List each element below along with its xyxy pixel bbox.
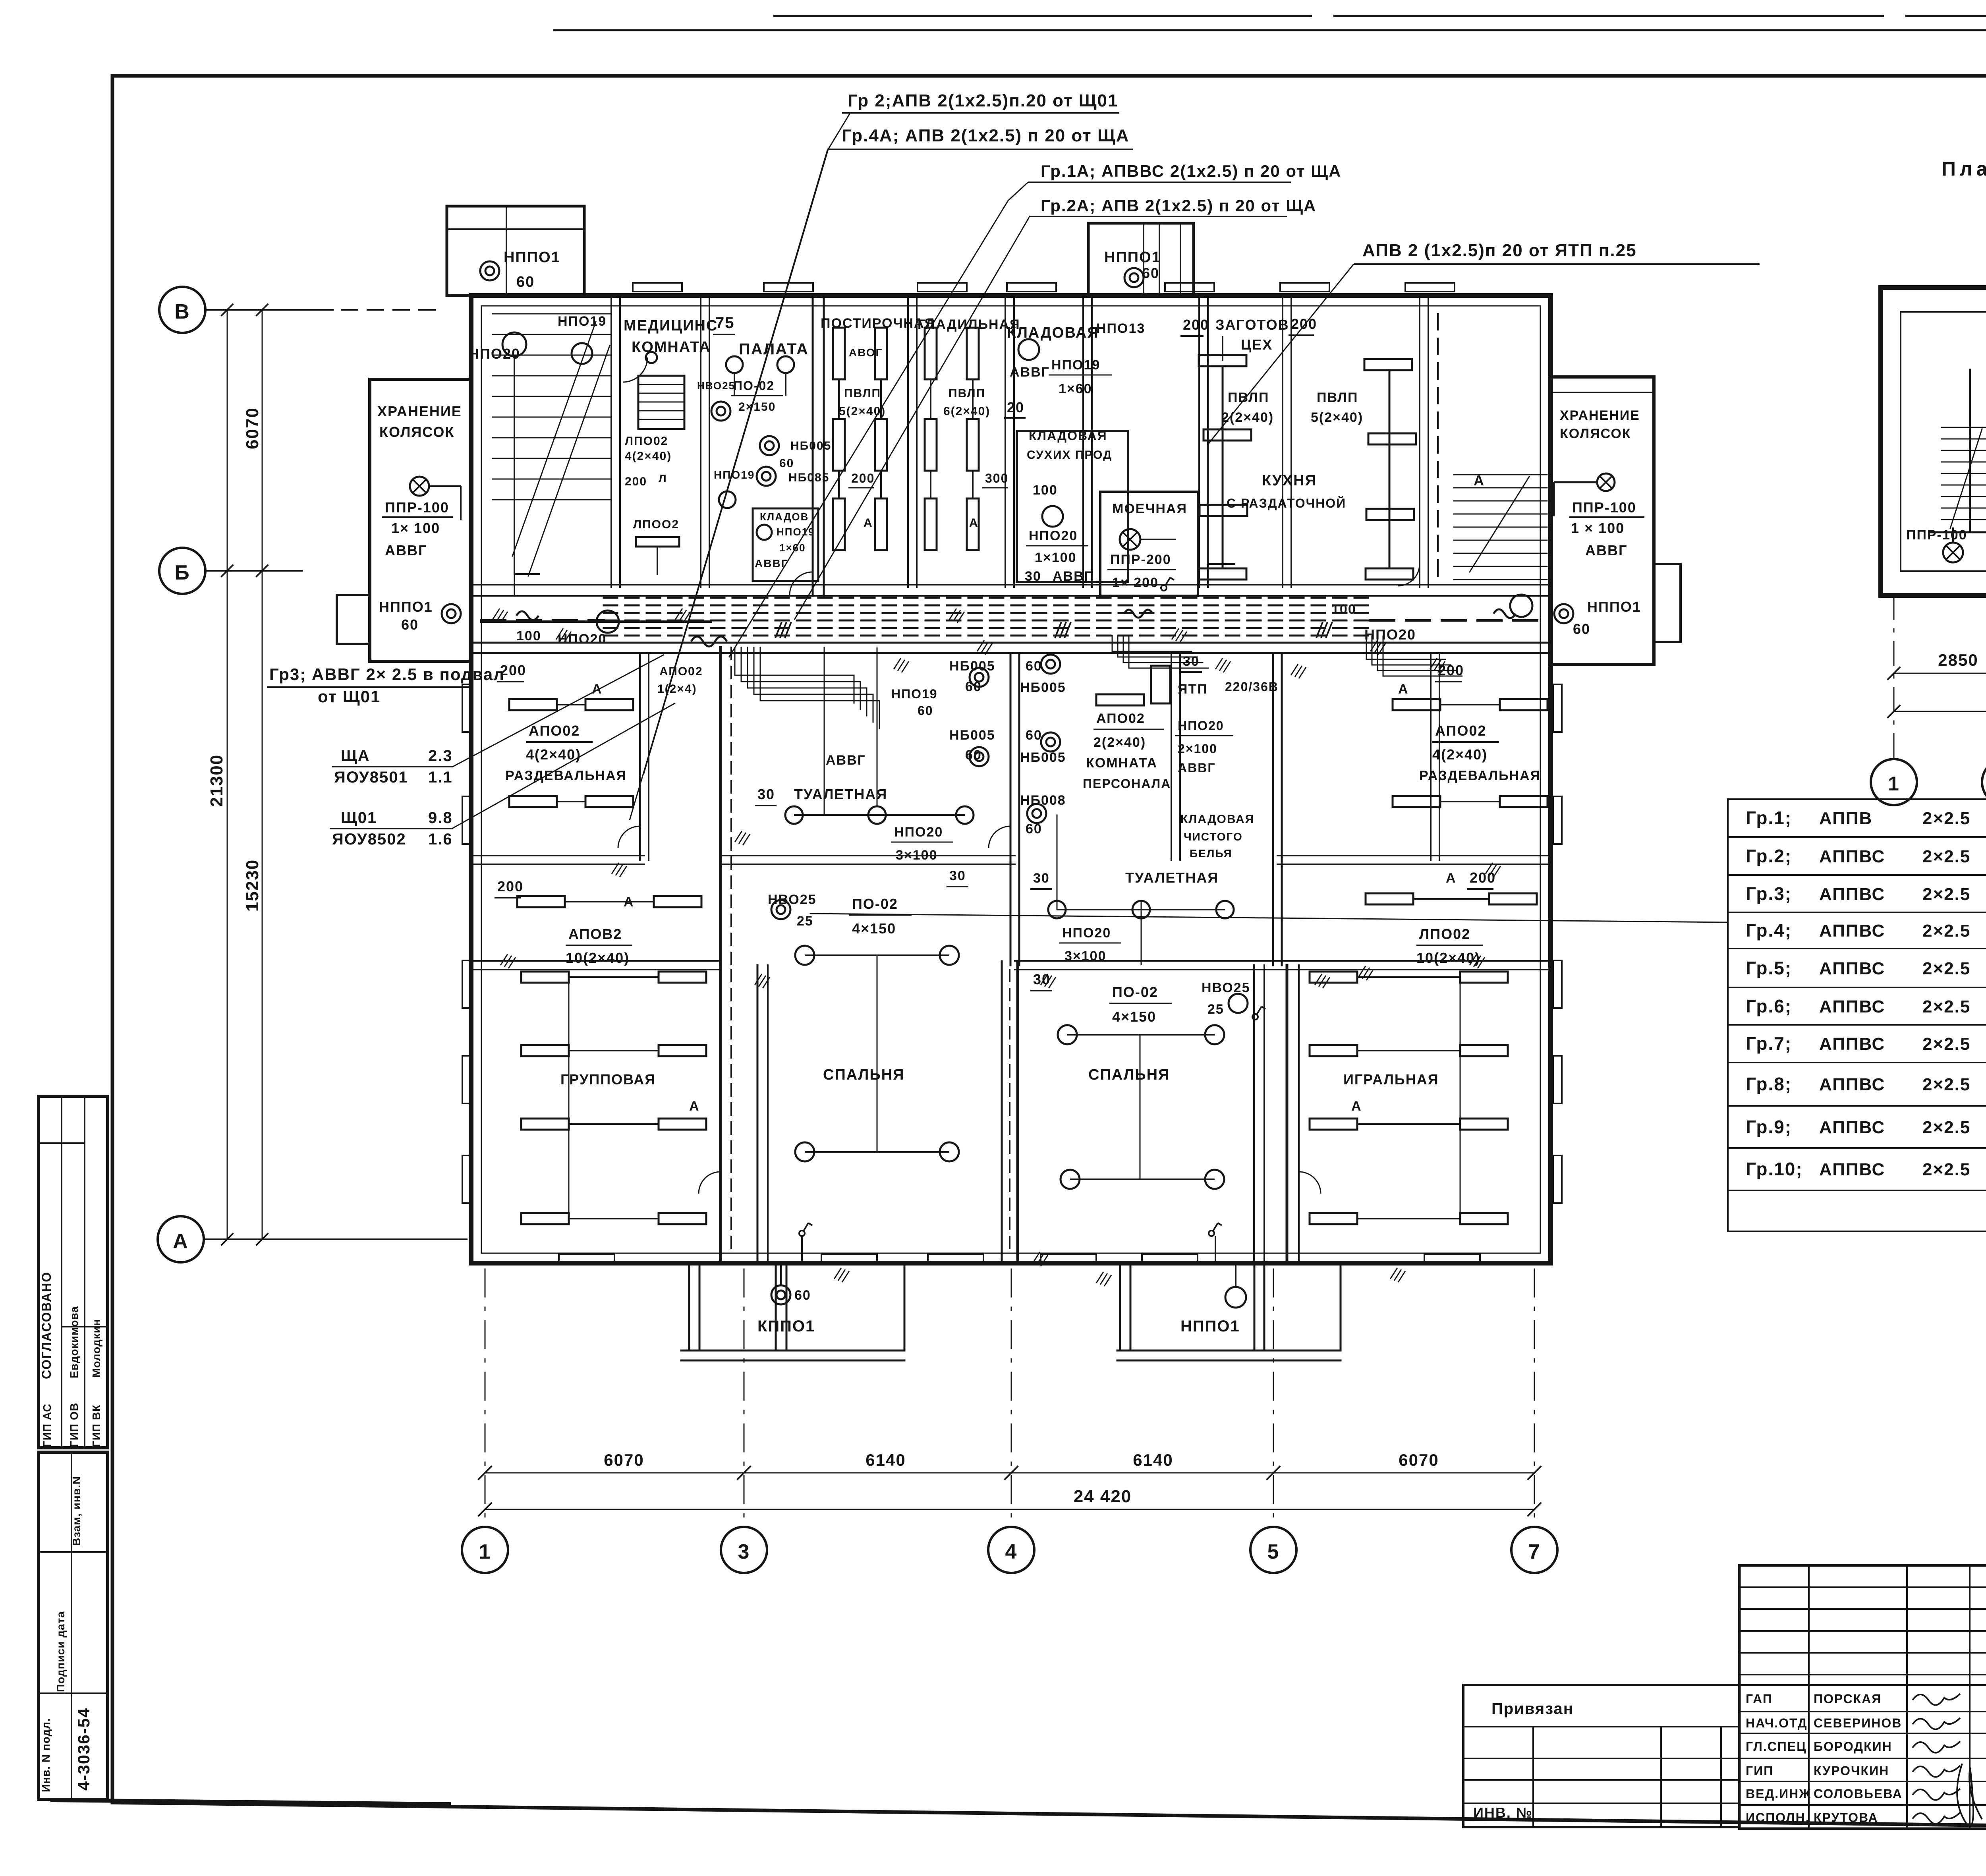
svg-text:ХРАНЕНИЕ: ХРАНЕНИЕ — [377, 403, 462, 419]
svg-text:Б: Б — [174, 561, 190, 584]
fluorescent fixture — [1310, 972, 1357, 983]
svg-text:ТУАЛЕТНАЯ: ТУАЛЕТНАЯ — [1125, 869, 1219, 886]
fluorescent fixture — [585, 699, 633, 710]
svg-text:ГЛ.СПЕЦ: ГЛ.СПЕЦ — [1746, 1739, 1807, 1754]
leader ЩА — [453, 655, 664, 767]
door arc медкомната — [623, 357, 647, 382]
fluorescent fixture — [1460, 1045, 1508, 1056]
inner face top — [481, 305, 1540, 307]
grid row А — [158, 1216, 204, 1262]
stairwell top-left treads — [493, 313, 611, 315]
svg-text:ГИП ОВ: ГИП ОВ — [68, 1403, 80, 1447]
right razdevalnaya wall (double) — [1430, 653, 1432, 860]
door arc палата — [790, 572, 813, 595]
svg-text:ЯОУ8501: ЯОУ8501 — [334, 769, 408, 786]
kitchen partition (double) — [1419, 296, 1420, 587]
switch — [799, 1223, 812, 1236]
pram storage room left (ХРАНЕНИЕ КОЛЯСОК) — [370, 379, 471, 661]
wall y=2165 left part — [471, 855, 644, 856]
svg-text:НПО20: НПО20 — [469, 346, 520, 362]
svg-text:200: 200 — [497, 878, 524, 895]
lamp — [868, 806, 886, 824]
hatch — [1390, 1268, 1405, 1282]
svg-text:НБ085: НБ085 — [788, 471, 829, 484]
fluorescent fixture — [585, 796, 633, 807]
svg-text:НВО25: НВО25 — [1202, 980, 1250, 995]
leader Gr2 — [643, 113, 850, 775]
fluorescent fixture — [1200, 505, 1247, 516]
leader YaTP — [1207, 264, 1354, 445]
svg-text:ЯТП: ЯТП — [1178, 682, 1208, 697]
lamp НПО20 right — [1510, 595, 1532, 617]
hatch — [1041, 974, 1056, 988]
svg-text:ЛПО02: ЛПО02 — [625, 435, 668, 448]
outer wall right — [1548, 296, 1553, 1263]
lamp — [785, 806, 803, 824]
wire bundle — [760, 647, 879, 728]
wire group room — [568, 977, 570, 1219]
lamp — [795, 1142, 814, 1161]
svg-text:НБ005: НБ005 — [1020, 680, 1066, 695]
switch — [1209, 1223, 1222, 1236]
svg-text:6(2×40): 6(2×40) — [943, 405, 990, 418]
signature scrawl — [1913, 1694, 1960, 1705]
wire drops toilets — [877, 647, 878, 806]
wire — [569, 1218, 659, 1219]
fluorescent fixture — [1460, 1119, 1508, 1130]
window sills top wall — [633, 283, 682, 292]
svg-text:АПОВ2: АПОВ2 — [568, 926, 622, 942]
svg-text:А: А — [173, 1230, 189, 1253]
svg-text:Подписи дата: Подписи дата — [54, 1611, 67, 1692]
svg-text:200: 200 — [851, 471, 875, 485]
svg-text:НБ005: НБ005 — [790, 439, 831, 452]
fluorescent fixture — [1368, 433, 1416, 444]
wire zagotov drop — [1222, 336, 1223, 361]
wire play room — [1460, 977, 1461, 1219]
svg-text:1: 1 — [479, 1540, 491, 1563]
svg-text:1×60: 1×60 — [779, 542, 806, 554]
fluorescent fixture — [636, 537, 679, 547]
lamp ППР-200 — [1120, 529, 1140, 550]
lamp — [1216, 901, 1234, 918]
svg-text:НПО20: НПО20 — [1062, 925, 1111, 941]
lamp — [1205, 1025, 1224, 1044]
lamp НПО20 corridor — [597, 611, 619, 633]
toilet2 bottom wall (double) — [1015, 960, 1277, 962]
signature scrawl — [1913, 1766, 1960, 1777]
lamp — [719, 491, 736, 508]
wire bundle — [1123, 636, 1203, 663]
svg-text:Гр.7;: Гр.7; — [1746, 1033, 1792, 1054]
svg-text:4(2×40): 4(2×40) — [625, 450, 672, 463]
fluorescent fixture — [659, 1119, 706, 1130]
svg-text:200: 200 — [500, 662, 526, 678]
riser marks corridor — [775, 622, 791, 638]
svg-text:БОРОДКИН: БОРОДКИН — [1814, 1739, 1892, 1754]
svg-text:60: 60 — [1142, 265, 1159, 281]
wire bundle — [1118, 636, 1197, 657]
lamp — [1058, 1025, 1077, 1044]
wire bundle — [748, 647, 867, 716]
svg-text:100: 100 — [1033, 483, 1058, 498]
svg-text:А: А — [689, 1099, 700, 1114]
lamp НПО20 — [502, 332, 526, 356]
fluorescent fixture — [1204, 429, 1251, 441]
signature scrawl — [1913, 1789, 1960, 1800]
fluorescent fixture — [1310, 1119, 1357, 1130]
play room left wall — [1286, 965, 1289, 1263]
svg-text:1 × 100: 1 × 100 — [1571, 520, 1625, 536]
svg-text:КЛАДОВ: КЛАДОВ — [760, 511, 809, 523]
lamp — [711, 402, 730, 421]
wire across to table — [810, 914, 1728, 922]
svg-text:7: 7 — [1528, 1540, 1541, 1563]
svg-text:2×2.5: 2×2.5 — [1922, 921, 1971, 941]
svg-text:Гр.4А; АПВ 2(1х2.5) п 20 от ЩА: Гр.4А; АПВ 2(1х2.5) п 20 от ЩА — [842, 126, 1130, 145]
svg-text:30: 30 — [1183, 654, 1200, 669]
svg-text:НППО1: НППО1 — [379, 599, 433, 615]
svg-text:АПО02: АПО02 — [1096, 711, 1145, 726]
svg-text:НБ005: НБ005 — [1020, 750, 1066, 765]
svg-text:ГЛАДИЛЬНАЯ: ГЛАДИЛЬНАЯ — [918, 317, 1020, 332]
leader Щ01 — [452, 703, 675, 829]
personnel room wall (double) — [1171, 653, 1172, 860]
hatch — [1430, 658, 1445, 672]
fluorescent fixture — [1366, 509, 1414, 520]
svg-text:НАЧ.ОТД: НАЧ.ОТД — [1746, 1716, 1808, 1730]
row line В — [205, 309, 333, 311]
window sills left wall — [462, 684, 471, 732]
lamp НБ005 — [970, 747, 989, 766]
lamp НБ008 — [1027, 804, 1046, 823]
store room dry products — [1017, 431, 1128, 582]
fluorescent fixture — [659, 972, 706, 983]
lamp — [795, 946, 814, 965]
svg-text:2×2.5: 2×2.5 — [1922, 959, 1971, 978]
svg-text:60: 60 — [1573, 621, 1590, 637]
svg-text:СОГЛАСОВАНО: СОГЛАСОВАНО — [39, 1271, 54, 1379]
svg-text:2×2.5: 2×2.5 — [1922, 1075, 1971, 1094]
svg-text:6070: 6070 — [243, 407, 262, 449]
lamp — [1205, 1170, 1224, 1189]
svg-text:200: 200 — [1291, 316, 1317, 332]
svg-text:Гр.5;: Гр.5; — [1746, 958, 1792, 978]
hatch — [1172, 628, 1187, 643]
svg-text:Гр.2А; АПВ 2(1х2.5) п 20 от ЩА: Гр.2А; АПВ 2(1х2.5) п 20 от ЩА — [1041, 196, 1316, 215]
svg-text:Гр.4;: Гр.4; — [1746, 920, 1792, 941]
hatch — [834, 1268, 849, 1282]
svg-text:2×2.5: 2×2.5 — [1922, 1118, 1971, 1137]
inner face right — [1540, 306, 1541, 1253]
fluorescent fixture — [833, 419, 845, 471]
svg-text:4-3036-54: 4-3036-54 — [74, 1708, 93, 1791]
wire — [794, 814, 965, 816]
svg-text:АВВГ: АВВГ — [826, 753, 866, 768]
svg-text:НПО19: НПО19 — [558, 314, 607, 329]
svg-text:ГРУППОВАЯ: ГРУППОВАЯ — [560, 1071, 656, 1088]
hatch — [612, 863, 627, 877]
corridor wiring bundle — [604, 597, 1370, 599]
svg-text:30: 30 — [949, 868, 966, 883]
svg-text:АВВГ: АВВГ — [1010, 365, 1050, 380]
svg-text:ЩА: ЩА — [341, 747, 370, 765]
fluorescent fixture — [521, 1119, 569, 1130]
wire — [838, 379, 840, 419]
svg-text:АППВС: АППВС — [1819, 1118, 1885, 1137]
svg-text:СЕВЕРИНОВ: СЕВЕРИНОВ — [1814, 1716, 1902, 1730]
hatch — [1291, 664, 1306, 678]
wire bundle — [741, 647, 860, 709]
svg-text:60: 60 — [965, 748, 982, 763]
svg-text:30: 30 — [1033, 971, 1051, 987]
wire — [1057, 909, 1225, 910]
wire — [1389, 370, 1391, 568]
svg-text:ПОРСКАЯ: ПОРСКАЯ — [1814, 1692, 1882, 1706]
door arc групповая — [699, 1172, 721, 1194]
svg-text:10(2×40): 10(2×40) — [566, 950, 630, 966]
svg-text:АВВГ: АВВГ — [755, 557, 788, 570]
fluorescent fixture — [875, 419, 887, 471]
lamp — [1042, 506, 1063, 527]
fluorescent fixture — [509, 796, 557, 807]
svg-text:А: А — [1446, 871, 1457, 886]
svg-text:Гр.2;: Гр.2; — [1746, 846, 1792, 866]
svg-text:ИНВ. №: ИНВ. № — [1473, 1805, 1533, 1821]
svg-text:ГИП: ГИП — [1746, 1764, 1773, 1778]
grid axis 2 basement — [1982, 759, 1986, 805]
svg-text:1×100: 1×100 — [1035, 550, 1077, 565]
svg-text:2.3: 2.3 — [428, 747, 453, 765]
svg-text:2×100: 2×100 — [1178, 742, 1217, 756]
lamp ППР-100 left — [410, 477, 429, 496]
svg-text:4: 4 — [1005, 1540, 1018, 1563]
svg-text:ЗАГОТОВ: ЗАГОТОВ — [1215, 317, 1289, 333]
svg-text:3×100: 3×100 — [1064, 949, 1107, 964]
svg-text:АППВС: АППВС — [1819, 921, 1885, 941]
left stamp block upper — [39, 1096, 108, 1448]
wire bundle — [1112, 636, 1192, 651]
svg-text:75: 75 — [715, 314, 735, 332]
grid row В — [159, 287, 205, 333]
svg-text:60: 60 — [1026, 728, 1042, 743]
grid axis 5 — [1250, 1527, 1296, 1573]
svg-text:Гр.6;: Гр.6; — [1746, 996, 1792, 1016]
outer wall bottom — [471, 1261, 1551, 1265]
svg-text:2×2.5: 2×2.5 — [1922, 1034, 1971, 1054]
svg-text:РАЗДЕВАЛЬНАЯ: РАЗДЕВАЛЬНАЯ — [1419, 768, 1541, 783]
signatures scrawl — [1913, 1694, 1982, 1826]
fluorescent fixture — [654, 896, 701, 907]
svg-text:2×2.5: 2×2.5 — [1922, 847, 1971, 866]
door arc туалетная — [989, 826, 1010, 848]
svg-text:КОМНАТА: КОМНАТА — [1086, 755, 1157, 771]
svg-text:АППВ: АППВ — [1819, 809, 1872, 828]
svg-text:ГИП АС: ГИП АС — [41, 1403, 53, 1447]
stair arrow — [512, 322, 596, 556]
svg-text:НПО20: НПО20 — [1178, 719, 1224, 733]
lamp НППО1 top-center — [1124, 268, 1144, 287]
lamp АВВГ — [1018, 339, 1039, 360]
wire drops to lamps — [514, 356, 515, 596]
door arc игральная — [1299, 1172, 1321, 1194]
wire — [805, 954, 949, 956]
wire — [1067, 1034, 1215, 1036]
svg-text:КЛАДОВАЯ: КЛАДОВАЯ — [1180, 813, 1254, 826]
svg-text:АППВС: АППВС — [1819, 1034, 1885, 1054]
lamp NPPO1 — [757, 467, 776, 486]
partition walls, top band (double line) — [610, 296, 612, 587]
svg-text:КУХНЯ: КУХНЯ — [1262, 472, 1317, 489]
svg-text:ПЕРСОНАЛА: ПЕРСОНАЛА — [1083, 777, 1171, 791]
washing room МОЕЧНАЯ — [1100, 492, 1198, 596]
svg-text:2×2.5: 2×2.5 — [1922, 997, 1971, 1016]
svg-text:ПАЛАТА: ПАЛАТА — [739, 340, 809, 358]
svg-text:НПО20: НПО20 — [1029, 528, 1078, 543]
svg-text:6070: 6070 — [604, 1451, 644, 1469]
svg-text:ТУАЛЕТНАЯ: ТУАЛЕТНАЯ — [794, 786, 887, 802]
svg-text:21300: 21300 — [207, 754, 226, 807]
wire — [1357, 976, 1460, 978]
svg-text:60: 60 — [779, 457, 794, 470]
svg-text:60: 60 — [1026, 659, 1042, 674]
svg-text:от Щ01: от Щ01 — [318, 687, 381, 706]
svg-text:Щ01: Щ01 — [341, 809, 377, 827]
svg-text:АПВ 2 (1х2.5)п 20 от ЯТП п.25: АПВ 2 (1х2.5)п 20 от ЯТП п.25 — [1362, 241, 1637, 260]
svg-text:1×60: 1×60 — [1059, 381, 1092, 396]
fluorescent fixture — [925, 328, 937, 379]
door arc кухня — [1398, 564, 1420, 586]
wire bundle — [1129, 636, 1208, 668]
bedroom separating wall — [1001, 961, 1003, 1263]
wire spalnya2 — [1140, 1035, 1141, 1179]
fluorescent fixture — [1460, 972, 1508, 983]
lamp ППР-100 right — [1597, 473, 1615, 491]
svg-text:220/36В: 220/36В — [1225, 680, 1279, 694]
wire — [1357, 1218, 1460, 1219]
leader Gr4A — [630, 150, 827, 820]
signature scrawl — [1913, 1718, 1960, 1729]
stair right treads — [1454, 474, 1547, 475]
row line Б — [205, 570, 302, 572]
wire spalnya1 — [877, 955, 878, 1152]
svg-text:2×2.5: 2×2.5 — [1922, 809, 1971, 828]
basement inner faces — [1900, 312, 1901, 571]
fluorescent fixture — [875, 498, 887, 550]
lamp ППР-100 — [1943, 543, 1963, 562]
fluorescent fixture — [659, 1213, 706, 1224]
window sills right wall — [1553, 684, 1562, 732]
svg-text:А: А — [864, 516, 873, 529]
svg-text:2850: 2850 — [1938, 651, 1978, 669]
lamp НППО1 left — [442, 604, 461, 623]
hatch — [675, 609, 690, 623]
fluorescent fixture — [1199, 568, 1246, 580]
svg-text:АППВС: АППВС — [1819, 1160, 1885, 1179]
fluorescent fixture — [925, 419, 937, 471]
svg-text:60: 60 — [965, 679, 982, 694]
svg-text:Л: Л — [659, 472, 667, 485]
hatch — [1033, 1252, 1048, 1266]
fluorescent fixture — [1096, 694, 1144, 705]
svg-text:Гр 2;АПВ 2(1х2.5)п.20 от Щ01: Гр 2;АПВ 2(1х2.5)п.20 от Щ01 — [848, 91, 1119, 110]
fluorescent fixture — [1364, 359, 1412, 370]
porch bottom-left — [688, 1265, 690, 1350]
svg-text:200: 200 — [625, 475, 647, 488]
inner face bottom — [481, 1253, 1540, 1254]
fluorescent fixture — [1310, 1213, 1357, 1224]
svg-text:ПВЛП: ПВЛП — [1228, 390, 1269, 405]
inner face left — [481, 306, 482, 1253]
lamp — [1132, 901, 1150, 918]
porch top-center — [1088, 223, 1194, 296]
hatch — [500, 954, 516, 968]
fluorescent fixture — [833, 498, 845, 550]
svg-text:НБ005: НБ005 — [949, 659, 995, 674]
svg-text:НПО20: НПО20 — [894, 825, 943, 840]
svg-text:НБ008: НБ008 — [1020, 793, 1066, 808]
svg-text:НПО19: НПО19 — [714, 469, 755, 481]
svg-text:АВВГ: АВВГ — [1178, 761, 1215, 775]
group room right wall — [719, 965, 722, 1263]
svg-text:СОЛОВЬЕВА: СОЛОВЬЕВА — [1814, 1787, 1903, 1801]
grid axis 7 — [1511, 1527, 1557, 1573]
svg-text:30: 30 — [757, 786, 775, 802]
med room stair hatch — [638, 376, 684, 429]
lamp — [940, 1142, 959, 1161]
svg-text:НБ005: НБ005 — [949, 728, 995, 743]
svg-text:КЛАДОВАЯ: КЛАДОВАЯ — [1007, 325, 1099, 341]
basement stair treads — [1942, 427, 1986, 428]
hatch — [493, 609, 508, 623]
svg-text:1(2×4): 1(2×4) — [657, 682, 697, 696]
svg-text:ХРАНЕНИЕ: ХРАНЕНИЕ — [1560, 408, 1640, 423]
lamp — [757, 525, 772, 540]
svg-text:1.1: 1.1 — [428, 769, 453, 786]
svg-text:АППВС: АППВС — [1819, 885, 1885, 904]
svg-text:5: 5 — [1267, 1540, 1280, 1563]
wire — [569, 976, 659, 978]
svg-text:План: План — [1942, 158, 1986, 180]
svg-text:Привязан: Привязан — [1491, 1700, 1574, 1718]
svg-text:МЕДИЦИНС: МЕДИЦИНС — [624, 317, 718, 334]
svg-text:ЦЕХ: ЦЕХ — [1241, 336, 1273, 353]
fluorescent fixture — [1366, 893, 1413, 904]
svg-text:Гр.8;: Гр.8; — [1746, 1074, 1792, 1094]
lamp НППО1 porch — [1225, 1287, 1246, 1308]
stair porch top-left — [447, 206, 584, 296]
pram storage room right — [1549, 377, 1654, 665]
door arc разд левая — [618, 826, 640, 848]
switch — [1252, 1007, 1265, 1020]
svg-text:60: 60 — [1026, 821, 1042, 837]
svg-text:2×150: 2×150 — [738, 400, 776, 413]
fluorescent fixture — [517, 896, 565, 907]
svg-text:НППО1: НППО1 — [1104, 249, 1161, 266]
svg-text:ППР-100: ППР-100 — [1906, 527, 1967, 543]
wire med room — [514, 356, 540, 574]
fluorescent fixture — [1500, 796, 1547, 807]
wire — [805, 1151, 949, 1153]
svg-text:НПО19: НПО19 — [777, 526, 815, 538]
wall y=2430 right part (double) — [1277, 960, 1551, 962]
svg-text:ЛПО02: ЛПО02 — [1419, 926, 1470, 942]
svg-text:СПАЛЬНЯ: СПАЛЬНЯ — [1088, 1066, 1170, 1083]
svg-text:2(2×40): 2(2×40) — [1093, 735, 1146, 750]
svg-text:4×150: 4×150 — [1112, 1009, 1156, 1025]
svg-text:НВО25: НВО25 — [768, 892, 817, 907]
svg-text:5(2×40): 5(2×40) — [839, 405, 886, 418]
